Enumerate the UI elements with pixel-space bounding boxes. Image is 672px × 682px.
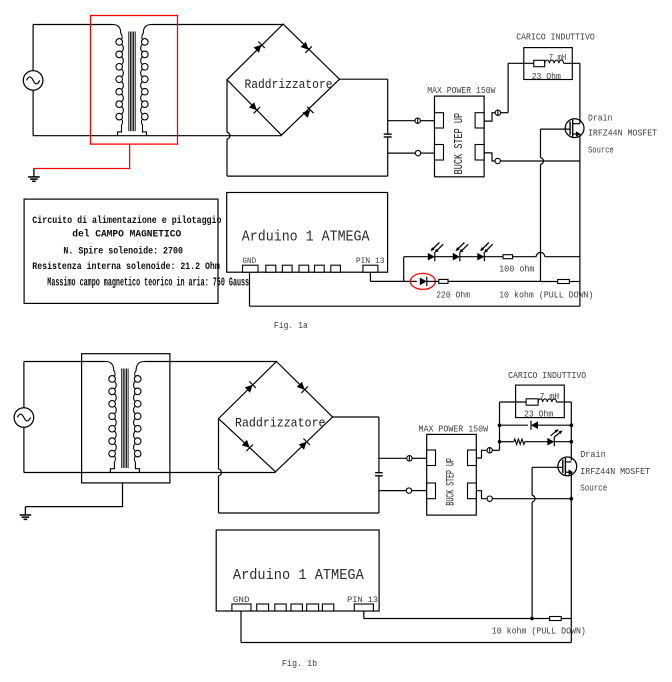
svg-text:IRFZ44N MOSFET: IRFZ44N MOSFET (588, 128, 657, 139)
svg-text:GND: GND (243, 257, 257, 266)
svg-text:Drain: Drain (580, 449, 606, 460)
svg-text:MAX POWER 150W: MAX POWER 150W (419, 424, 489, 435)
svg-text:23 Ohm: 23 Ohm (524, 409, 554, 420)
svg-text:220 Ohm: 220 Ohm (436, 289, 470, 300)
svg-text:CARICO INDUTTIVO: CARICO INDUTTIVO (516, 32, 595, 43)
svg-text:PIN 13: PIN 13 (356, 257, 385, 266)
svg-text:Massimo campo magnetico teoric: Massimo campo magnetico teorico in aria:… (47, 277, 249, 290)
svg-text:10 kohm (PULL DOWN): 10 kohm (PULL DOWN) (492, 625, 586, 636)
svg-text:Resistenza interna solenoide:: Resistenza interna solenoide: 21.2 Ohm (32, 261, 220, 273)
svg-text:Fig. 1a: Fig. 1a (274, 321, 308, 331)
svg-text:PIN 13: PIN 13 (347, 596, 378, 605)
svg-text:CARICO INDUTTIVO: CARICO INDUTTIVO (508, 370, 586, 381)
svg-text:del CAMPO MAGNETICO: del CAMPO MAGNETICO (72, 229, 181, 241)
svg-text:7 mH: 7 mH (549, 52, 567, 63)
svg-text:N. Spire solenoide: 2700: N. Spire solenoide: 2700 (63, 245, 183, 257)
svg-text:23 Ohm: 23 Ohm (532, 71, 562, 82)
svg-text:Circuito di alimentazione e pi: Circuito di alimentazione e pilotaggio (32, 215, 221, 227)
svg-text:BUCK STEP UP: BUCK STEP UP (446, 458, 458, 506)
svg-text:Drain: Drain (588, 113, 612, 124)
svg-text:Arduino 1 ATMEGA: Arduino 1 ATMEGA (242, 229, 370, 246)
svg-text:Fig. 1b: Fig. 1b (282, 659, 317, 669)
svg-text:Raddrizzatore: Raddrizzatore (245, 78, 333, 92)
svg-text:GND: GND (233, 596, 250, 605)
svg-text:Source: Source (588, 145, 614, 156)
svg-text:MAX POWER 150W: MAX POWER 150W (427, 85, 496, 96)
svg-text:100 ohm: 100 ohm (499, 263, 535, 274)
svg-text:Source: Source (580, 482, 607, 493)
svg-text:IRFZ44N MOSFET: IRFZ44N MOSFET (580, 466, 650, 477)
svg-text:10 kohm (PULL DOWN): 10 kohm (PULL DOWN) (499, 289, 593, 300)
svg-text:BUCK STEP UP: BUCK STEP UP (452, 113, 466, 175)
svg-text:Raddrizzatore: Raddrizzatore (235, 417, 326, 431)
svg-text:Arduino 1 ATMEGA: Arduino 1 ATMEGA (233, 567, 364, 584)
svg-text:7 mH: 7 mH (540, 391, 560, 402)
